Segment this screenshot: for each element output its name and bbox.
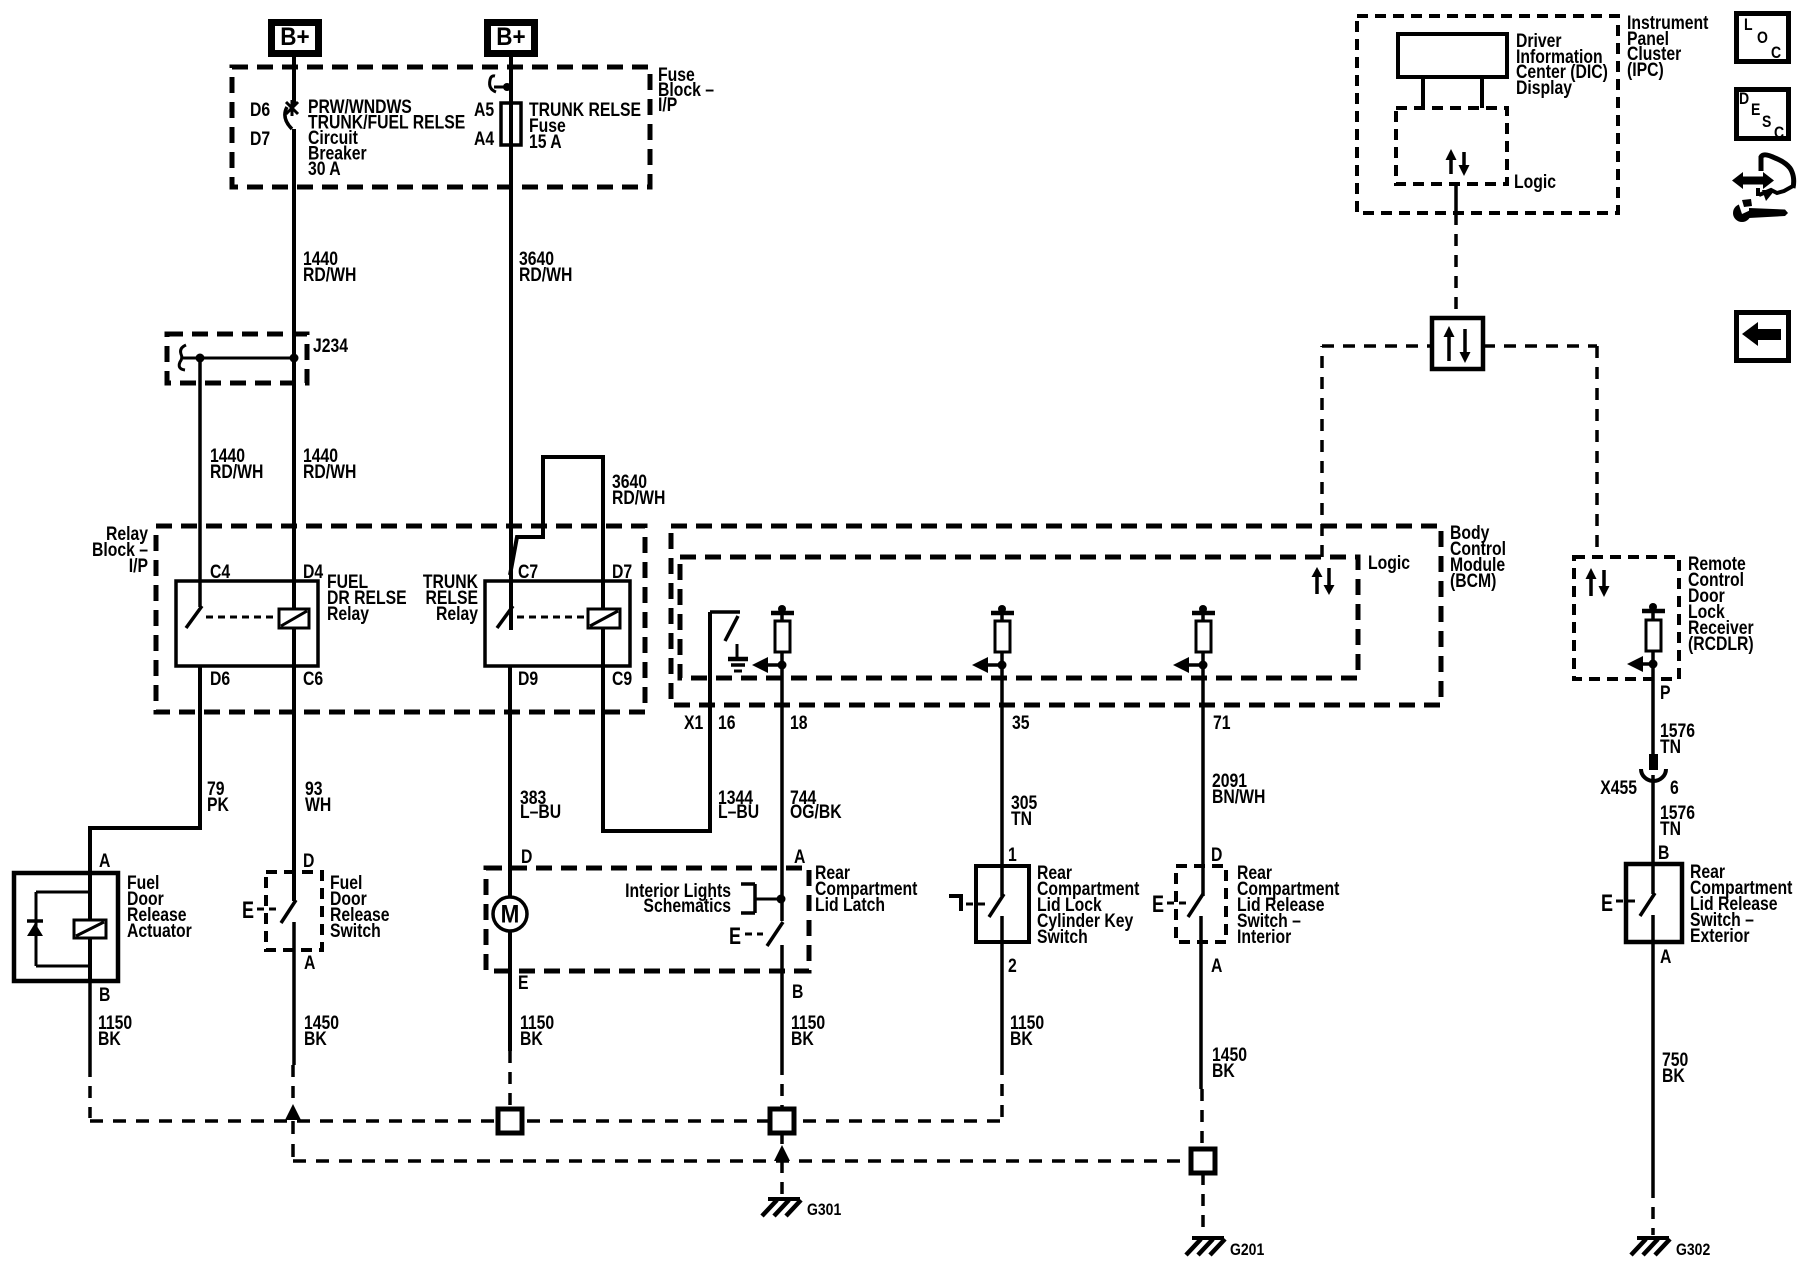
wire splice down to G201 xyxy=(1201,1173,1205,1236)
circuit breaker PRW/WNDWS TRUNK/FUEL RELSE 30A xyxy=(250,96,465,180)
rear compartment lid release switch exterior xyxy=(1601,842,1793,968)
svg-text:B: B xyxy=(99,984,110,1006)
wire label 1440 RD/WH upper xyxy=(303,248,356,286)
wire BCM pin 71 down to interior switch xyxy=(1201,665,1205,896)
splice J234 xyxy=(167,334,348,383)
svg-text:BK: BK xyxy=(304,1028,327,1050)
svg-text:Switch: Switch xyxy=(330,920,381,942)
svg-text:A: A xyxy=(99,850,111,872)
wire circuit breaker D7 down to J234 and relay D4 xyxy=(292,129,296,609)
svg-text:Logic: Logic xyxy=(1514,171,1556,193)
wire label 305 TN xyxy=(1011,792,1038,830)
ground G302 xyxy=(1631,1238,1710,1259)
relay TRUNK RELSE xyxy=(423,561,633,690)
svg-text:D: D xyxy=(303,850,314,872)
ground bus 2 xyxy=(293,1121,1191,1161)
icon data link with wrench xyxy=(1732,155,1794,222)
wire relay D6 down and left to actuator xyxy=(90,666,200,873)
svg-text:BK: BK xyxy=(98,1028,121,1050)
B+ feed 2 xyxy=(488,23,535,54)
wire label 750 BK xyxy=(1662,1049,1688,1087)
rear compartment lid release switch interior xyxy=(1152,844,1340,977)
relay FUEL DR RELSE xyxy=(176,561,407,690)
wire label 1150 BK motor xyxy=(520,1012,554,1050)
svg-text:BK: BK xyxy=(520,1028,543,1050)
wire label 383 L-BU xyxy=(520,787,561,823)
wire latch B dashed to ground splice xyxy=(780,1063,784,1109)
svg-text:G302: G302 xyxy=(1676,1241,1710,1259)
svg-text:RD/WH: RD/WH xyxy=(303,264,356,286)
remote control door lock receiver RCDLR box xyxy=(1574,553,1754,679)
svg-text:I/P: I/P xyxy=(658,94,678,116)
svg-text:OG/BK: OG/BK xyxy=(790,801,842,823)
splice square G201 xyxy=(1191,1149,1215,1173)
svg-text:Switch: Switch xyxy=(1037,926,1088,948)
svg-text:G201: G201 xyxy=(1230,1241,1265,1259)
svg-text:C: C xyxy=(1771,44,1781,62)
svg-text:E: E xyxy=(1601,891,1613,917)
wire label 744 OG/BK xyxy=(790,787,842,823)
svg-text:1: 1 xyxy=(1008,844,1017,866)
svg-text:P: P xyxy=(1660,682,1671,704)
svg-text:A: A xyxy=(1660,946,1672,968)
BCM pin 35 pull-up resistor and sense arrow xyxy=(972,605,1014,673)
svg-text:35: 35 xyxy=(1012,712,1030,734)
wire connector X455 down to exterior switch B xyxy=(1651,775,1655,894)
fuse clip xyxy=(490,76,511,92)
svg-text:TN: TN xyxy=(1660,736,1681,758)
wire trunk relay C9 down right and up to BCM X1-16 xyxy=(603,612,710,831)
svg-text:E: E xyxy=(729,924,741,950)
svg-text:L–BU: L–BU xyxy=(520,801,561,823)
wire label 1150 BK key switch xyxy=(1010,1012,1044,1050)
wire label 1576 TN upper xyxy=(1660,720,1695,758)
lid latch ajar switch xyxy=(729,899,783,1063)
svg-text:X1: X1 xyxy=(684,712,704,734)
svg-text:L–BU: L–BU xyxy=(718,801,759,823)
svg-text:E: E xyxy=(1751,101,1760,119)
wire label 1150 BK actuator xyxy=(98,1012,132,1050)
svg-text:Relay: Relay xyxy=(436,603,478,625)
svg-text:BK: BK xyxy=(1212,1060,1235,1082)
wire label 3640 RD/WH upper xyxy=(519,248,572,286)
ground G201 xyxy=(1186,1238,1265,1259)
svg-text:E: E xyxy=(1152,892,1164,918)
wire label 1450 BK fuel door switch xyxy=(304,1012,339,1050)
BCM logic box xyxy=(680,552,1410,678)
wire label 79 PK xyxy=(207,778,229,816)
wire BCM pin 18 down to latch xyxy=(780,665,784,899)
svg-text:Interior: Interior xyxy=(1237,926,1291,948)
rear compartment lid latch box xyxy=(486,846,918,971)
svg-text:D: D xyxy=(1211,844,1222,866)
wire exterior switch A down to G302 xyxy=(1651,915,1655,1235)
DIC display xyxy=(1398,30,1608,108)
svg-text:E: E xyxy=(518,972,529,994)
svg-text:TN: TN xyxy=(1660,818,1681,840)
wire label B and 1150 BK latch xyxy=(791,981,825,1050)
wire label 1450 BK interior switch xyxy=(1212,1044,1247,1082)
svg-text:X455: X455 xyxy=(1600,777,1637,799)
body control module BCM box xyxy=(671,522,1506,705)
fuse TRUNK RELSE 15A xyxy=(474,99,641,153)
wire B+ to circuit breaker D6 xyxy=(292,57,296,106)
svg-text:D: D xyxy=(521,846,532,868)
svg-text:A5: A5 xyxy=(474,99,494,121)
svg-text:C4: C4 xyxy=(210,561,230,583)
wire BCM pin 35 down to key switch xyxy=(1000,665,1004,896)
svg-text:A4: A4 xyxy=(474,128,494,150)
icon LOC xyxy=(1737,14,1789,63)
BCM X1 pin 16 internal ground switch xyxy=(710,612,748,671)
wire motor E dashed to ground bus xyxy=(510,972,529,1109)
svg-text:BN/WH: BN/WH xyxy=(1212,786,1265,808)
wire label 2091 BN/WH xyxy=(1212,770,1265,808)
BCM pin 18 pull-up resistor and sense arrow xyxy=(752,605,794,673)
svg-text:(RCDLR): (RCDLR) xyxy=(1688,633,1754,655)
wire interior switch A down to ground splice xyxy=(1201,916,1202,1149)
svg-text:16: 16 xyxy=(718,712,736,734)
svg-text:I/P: I/P xyxy=(129,555,149,577)
svg-text:D6: D6 xyxy=(250,99,270,121)
svg-text:PK: PK xyxy=(207,794,229,816)
svg-text:C6: C6 xyxy=(303,668,323,690)
svg-text:2: 2 xyxy=(1008,955,1017,977)
svg-text:WH: WH xyxy=(305,794,331,816)
svg-text:Display: Display xyxy=(1516,77,1572,99)
svg-text:S: S xyxy=(1762,113,1771,131)
BCM pin 71 pull-up resistor and sense arrow xyxy=(1173,605,1215,673)
wire fuel door release switch A down to ground bus xyxy=(285,922,301,1120)
wire 3640 branch to trunk relay D7 xyxy=(510,457,603,609)
wire label 3640 RD/WH branch xyxy=(612,471,665,509)
svg-text:6: 6 xyxy=(1670,777,1679,799)
svg-text:D: D xyxy=(1739,90,1749,108)
wire BCM logic serial data up to IPC link xyxy=(1322,346,1432,557)
svg-text:C7: C7 xyxy=(518,561,538,583)
wire actuator B down to ground bus xyxy=(90,981,110,1118)
svg-text:Relay: Relay xyxy=(327,603,369,625)
svg-text:B+: B+ xyxy=(496,23,525,51)
svg-text:Exterior: Exterior xyxy=(1690,925,1750,947)
svg-text:RD/WH: RD/WH xyxy=(303,461,356,483)
wire J234 branch down to relay C4 xyxy=(198,358,202,581)
wire B+ to fuse A5 xyxy=(509,57,513,103)
svg-text:BK: BK xyxy=(1662,1065,1685,1087)
relay block I/P box xyxy=(92,523,645,712)
svg-text:A: A xyxy=(304,952,316,974)
svg-text:Lid Latch: Lid Latch xyxy=(815,894,885,916)
svg-text:(BCM): (BCM) xyxy=(1450,570,1496,592)
ground bus 1 xyxy=(90,1119,1002,1123)
svg-text:B: B xyxy=(792,981,803,1003)
svg-text:71: 71 xyxy=(1213,712,1231,734)
svg-text:(IPC): (IPC) xyxy=(1627,59,1664,81)
BCM logic arrows xyxy=(1312,567,1335,595)
fuse block I/P box xyxy=(232,64,714,187)
svg-text:Schematics: Schematics xyxy=(643,895,731,917)
wire latch splice down to G301 xyxy=(774,1133,790,1196)
wire trunk relay D9 down to latch motor D xyxy=(508,666,512,897)
icon back arrow xyxy=(1737,313,1789,361)
svg-text:RD/WH: RD/WH xyxy=(519,264,572,286)
fuel door release actuator xyxy=(14,850,192,981)
svg-text:G301: G301 xyxy=(807,1201,842,1219)
wire serial data link to RCDLR xyxy=(1483,346,1597,557)
serial data link connector box xyxy=(1432,318,1483,369)
wire label 1440 RD/WH left branch xyxy=(210,445,263,483)
svg-text:J234: J234 xyxy=(313,335,348,357)
svg-text:BK: BK xyxy=(791,1028,814,1050)
wire label 1576 TN lower xyxy=(1660,802,1695,840)
wire fuse A4 down to trunk relay C7 xyxy=(509,145,513,630)
svg-text:30 A: 30 A xyxy=(308,158,341,180)
svg-text:O: O xyxy=(1757,29,1768,47)
wire RCDLR pin P down to connector X455 xyxy=(1653,664,1671,756)
wire IPC logic down to serial data link xyxy=(1454,184,1458,318)
instrument panel cluster IPC box xyxy=(1357,12,1709,213)
svg-text:RD/WH: RD/WH xyxy=(210,461,263,483)
wire label 1344 L-BU xyxy=(718,787,759,823)
wire label 93 WH xyxy=(305,778,331,816)
svg-text:D9: D9 xyxy=(518,668,538,690)
svg-text:M: M xyxy=(501,900,520,928)
svg-text:18: 18 xyxy=(790,712,808,734)
RCDLR logic arrows xyxy=(1586,568,1610,597)
interior lights schematics tie-in xyxy=(625,880,785,917)
svg-text:15 A: 15 A xyxy=(529,131,562,153)
wire relay C6 down to fuel door release switch D xyxy=(292,628,296,901)
RCDLR pull-up resistor and sense arrow xyxy=(1627,603,1665,672)
inline connector X455 pin 6 xyxy=(1600,754,1679,798)
svg-text:BK: BK xyxy=(1010,1028,1033,1050)
svg-text:D7: D7 xyxy=(250,128,270,150)
splice square latch ground xyxy=(770,1109,794,1133)
svg-text:C: C xyxy=(1774,124,1784,142)
rear compartment lid lock cylinder key switch xyxy=(949,844,1140,977)
B+ feed 1 xyxy=(272,23,319,54)
svg-text:D6: D6 xyxy=(210,668,230,690)
icon DESC xyxy=(1737,90,1789,143)
latch release motor M xyxy=(493,897,527,1051)
svg-text:D4: D4 xyxy=(303,561,323,583)
fuel door release switch xyxy=(242,850,390,974)
svg-text:E: E xyxy=(242,898,254,924)
wire key switch 2 down to ground bus xyxy=(1000,916,1004,1121)
IPC logic box xyxy=(1396,108,1556,192)
svg-text:RD/WH: RD/WH xyxy=(612,487,665,509)
IPC logic arrows xyxy=(1446,149,1470,176)
svg-text:L: L xyxy=(1744,16,1753,34)
svg-text:C9: C9 xyxy=(612,668,632,690)
svg-text:Logic: Logic xyxy=(1368,552,1410,574)
svg-text:Actuator: Actuator xyxy=(127,920,192,942)
svg-text:TN: TN xyxy=(1011,808,1032,830)
BCM connector pin labels X1 16 18 35 71 xyxy=(684,712,1231,734)
svg-text:A: A xyxy=(1211,955,1223,977)
svg-text:B: B xyxy=(1658,842,1669,864)
wire label 1440 RD/WH right branch xyxy=(303,445,356,483)
splice square motor ground xyxy=(498,1109,522,1133)
ground G301 xyxy=(762,1199,842,1219)
svg-text:A: A xyxy=(794,846,806,868)
svg-text:B+: B+ xyxy=(280,23,309,51)
svg-text:D7: D7 xyxy=(612,561,632,583)
